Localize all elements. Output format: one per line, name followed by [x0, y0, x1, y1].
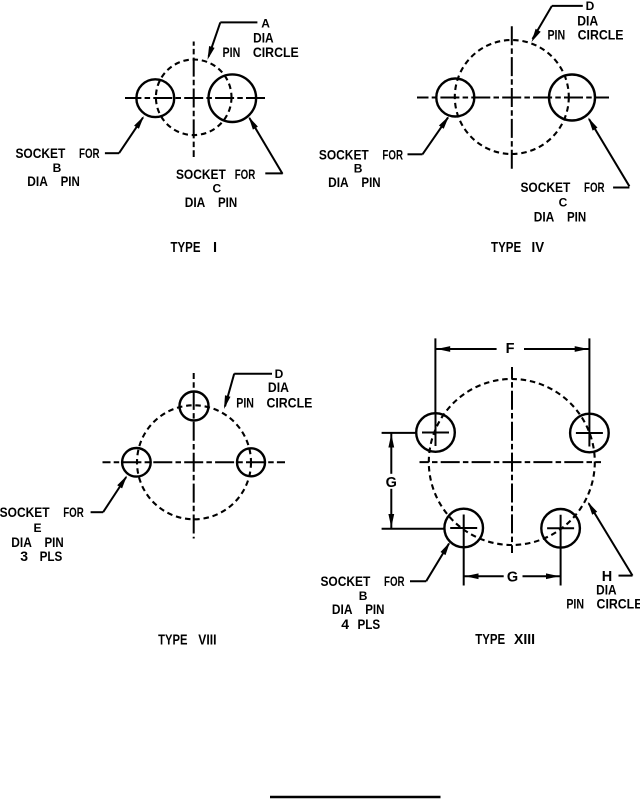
label DIA (TYPE IV) [577, 12, 598, 28]
svg-text:CIRCLE: CIRCLE [266, 394, 312, 410]
label G (horizontal dim) [507, 570, 518, 586]
label DIA PIN (TYPE XIII) [332, 601, 384, 617]
svg-text:C: C [559, 195, 568, 209]
socket circle B upper-right (TYPE XIII) [570, 414, 609, 453]
extension line G bottom-left [463, 515, 465, 586]
caption TYPE I [171, 240, 218, 256]
label E (TYPE VIII) [33, 521, 41, 535]
svg-text:DIA: DIA [268, 379, 289, 395]
extension line F right [588, 338, 590, 413]
label DIA PIN (TYPE IV left) [328, 174, 381, 190]
svg-text:G: G [507, 570, 518, 586]
pin circle D (TYPE VIII, dashed) [137, 405, 251, 519]
leader to pin circle A [208, 22, 258, 59]
socket circle E top (TYPE VIII) [180, 392, 209, 421]
svg-text:CIRCLE: CIRCLE [597, 596, 640, 612]
label PIN CIRCLE (TYPE IV) [547, 27, 623, 43]
svg-text:DIA: DIA [253, 29, 274, 45]
crosshair lower-left socket [450, 527, 477, 529]
svg-text:FOR: FOR [63, 504, 84, 520]
crosshair lower-right socket [547, 527, 574, 529]
vertical centerline TYPE IV [511, 26, 513, 171]
label DIA PIN (TYPE I left) [27, 173, 80, 189]
svg-text:FOR: FOR [382, 146, 403, 162]
svg-text:4: 4 [341, 616, 349, 632]
label SOCKET FOR (TYPE IV right) [520, 179, 604, 195]
label DIA PIN (TYPE VIII) [11, 534, 63, 550]
socket circle B lower-left (TYPE XIII) [444, 509, 483, 548]
svg-text:CIRCLE: CIRCLE [578, 27, 624, 43]
label B (TYPE IV) [354, 161, 363, 175]
label SOCKET FOR (TYPE I center) [176, 166, 255, 182]
label D (TYPE VIII) [275, 367, 284, 381]
label 3 PLS (TYPE VIII) [20, 548, 62, 564]
socket circle B (TYPE I left) [136, 79, 174, 117]
dimension line G vertical [388, 433, 394, 529]
extension line F left [434, 338, 436, 413]
label PIN CIRCLE (H) [566, 596, 640, 612]
svg-text:PIN: PIN [218, 194, 237, 210]
horizontal centerline TYPE I [125, 97, 267, 99]
svg-text:SOCKET: SOCKET [520, 179, 570, 195]
label SOCKET FOR (TYPE IV left) [319, 146, 403, 162]
socket circle B upper-left (TYPE XIII) [416, 413, 455, 452]
svg-text:D: D [586, 0, 595, 13]
label DIA (H) [596, 582, 617, 598]
leader to socket C (TYPE IV) [588, 118, 629, 188]
label B (TYPE I) [53, 161, 62, 175]
svg-text:SOCKET: SOCKET [176, 166, 226, 182]
extension line G lower [382, 528, 445, 530]
pin circle H (TYPE XIII, dashed) [429, 379, 595, 545]
label C (TYPE IV) [559, 195, 568, 209]
svg-text:PLS: PLS [357, 616, 380, 632]
dimension line G horizontal [464, 573, 561, 579]
horizontal centerline TYPE XIII [420, 461, 602, 463]
leader to socket B (TYPE XIII) [410, 542, 450, 581]
svg-text:SOCKET: SOCKET [319, 146, 369, 162]
svg-text:TYPE: TYPE [158, 632, 188, 648]
svg-text:TYPE: TYPE [491, 240, 521, 256]
svg-text:FOR: FOR [79, 145, 100, 161]
pin circle D (TYPE IV, dashed) [455, 40, 569, 154]
dimension line F [435, 346, 589, 352]
caption TYPE IV [491, 240, 544, 256]
extension line G bottom-right [560, 515, 562, 586]
caption TYPE XIII [475, 632, 535, 648]
svg-text:PIN: PIN [567, 209, 586, 225]
leader to pin circle D (TYPE IV) [532, 6, 583, 42]
socket circle E left (TYPE VIII) [122, 448, 151, 477]
svg-text:PIN: PIN [566, 596, 584, 612]
svg-text:F: F [506, 341, 515, 357]
socket circle B (TYPE IV left) [436, 79, 474, 117]
label DIA (TYPE VIII) [268, 379, 289, 395]
svg-text:DIA: DIA [328, 174, 349, 190]
crosshair upper-right socket [576, 432, 603, 434]
crosshair vertical upper-right [588, 414, 590, 447]
svg-text:PIN: PIN [61, 173, 80, 189]
svg-text:TYPE: TYPE [171, 240, 201, 256]
vertical centerline TYPE I [193, 42, 195, 158]
label DIA PIN (TYPE IV right) [534, 209, 587, 225]
horizontal centerline TYPE IV [417, 97, 609, 99]
svg-text:E: E [33, 521, 41, 535]
svg-text:DIA: DIA [332, 601, 353, 617]
socket circle B lower-right (TYPE XIII) [541, 509, 580, 548]
label PIN CIRCLE (A) [223, 44, 299, 60]
label C (TYPE I) [212, 182, 221, 196]
label SOCKET FOR (TYPE VIII) [0, 504, 84, 520]
svg-text:SOCKET: SOCKET [15, 145, 65, 161]
socket circle E right (TYPE VIII) [237, 448, 265, 476]
svg-text:DIA: DIA [534, 209, 555, 225]
label H [602, 569, 612, 585]
svg-text:DIA: DIA [185, 194, 206, 210]
pin circle A (TYPE I, dashed) [156, 60, 232, 136]
label G (vertical dim) [386, 475, 397, 491]
leader to socket E (TYPE VIII) [91, 476, 127, 513]
extension line G upper [382, 432, 416, 434]
leader to socket C (TYPE I) [249, 117, 283, 174]
svg-text:SOCKET: SOCKET [320, 573, 370, 589]
svg-text:CIRCLE: CIRCLE [253, 44, 299, 60]
label F [506, 341, 515, 357]
svg-text:PIN: PIN [236, 394, 254, 410]
svg-text:G: G [386, 475, 397, 491]
svg-text:A: A [261, 16, 270, 30]
svg-text:FOR: FOR [235, 166, 256, 182]
bottom rule line [270, 796, 441, 798]
crosshair vertical upper-left [435, 413, 437, 446]
label PIN CIRCLE (TYPE VIII) [236, 394, 312, 410]
svg-text:XIII: XIII [514, 632, 535, 648]
svg-text:DIA: DIA [27, 173, 48, 189]
leader to socket B (TYPE IV) [408, 116, 450, 154]
svg-text:I: I [213, 240, 217, 256]
svg-text:3: 3 [20, 548, 28, 564]
svg-text:PLS: PLS [40, 548, 63, 564]
socket circle C (TYPE I right) [209, 74, 257, 122]
svg-text:FOR: FOR [384, 573, 405, 589]
label DIA (A) [253, 29, 274, 45]
label D (TYPE IV) [586, 0, 595, 13]
label SOCKET FOR (TYPE XIII) [320, 573, 404, 589]
horizontal centerline TYPE VIII [103, 461, 286, 463]
svg-text:IV: IV [532, 240, 545, 256]
socket circle C (TYPE IV right) [549, 75, 595, 121]
label 4 PLS (TYPE XIII) [341, 616, 380, 632]
svg-text:SOCKET: SOCKET [0, 504, 50, 520]
crosshair upper-left socket [422, 432, 449, 434]
svg-text:FOR: FOR [584, 179, 605, 195]
svg-text:PIN: PIN [223, 44, 241, 60]
caption TYPE VIII [158, 632, 216, 648]
svg-text:TYPE: TYPE [475, 632, 505, 648]
svg-text:PIN: PIN [361, 174, 380, 190]
leader to socket B (TYPE I) [105, 116, 144, 153]
vertical centerline TYPE VIII [193, 373, 195, 539]
svg-text:PIN: PIN [547, 27, 565, 43]
label SOCKET FOR (TYPE I left) [15, 145, 99, 161]
label A [261, 16, 270, 30]
svg-text:VIII: VIII [198, 632, 216, 648]
label B (TYPE XIII) [359, 589, 368, 603]
svg-text:PIN: PIN [365, 601, 384, 617]
leader to pin circle H (TYPE XIII) [588, 502, 633, 576]
leader to pin circle D (TYPE VIII) [224, 374, 272, 409]
label DIA PIN (TYPE I center) [185, 194, 238, 210]
vertical centerline TYPE XIII [511, 367, 513, 553]
